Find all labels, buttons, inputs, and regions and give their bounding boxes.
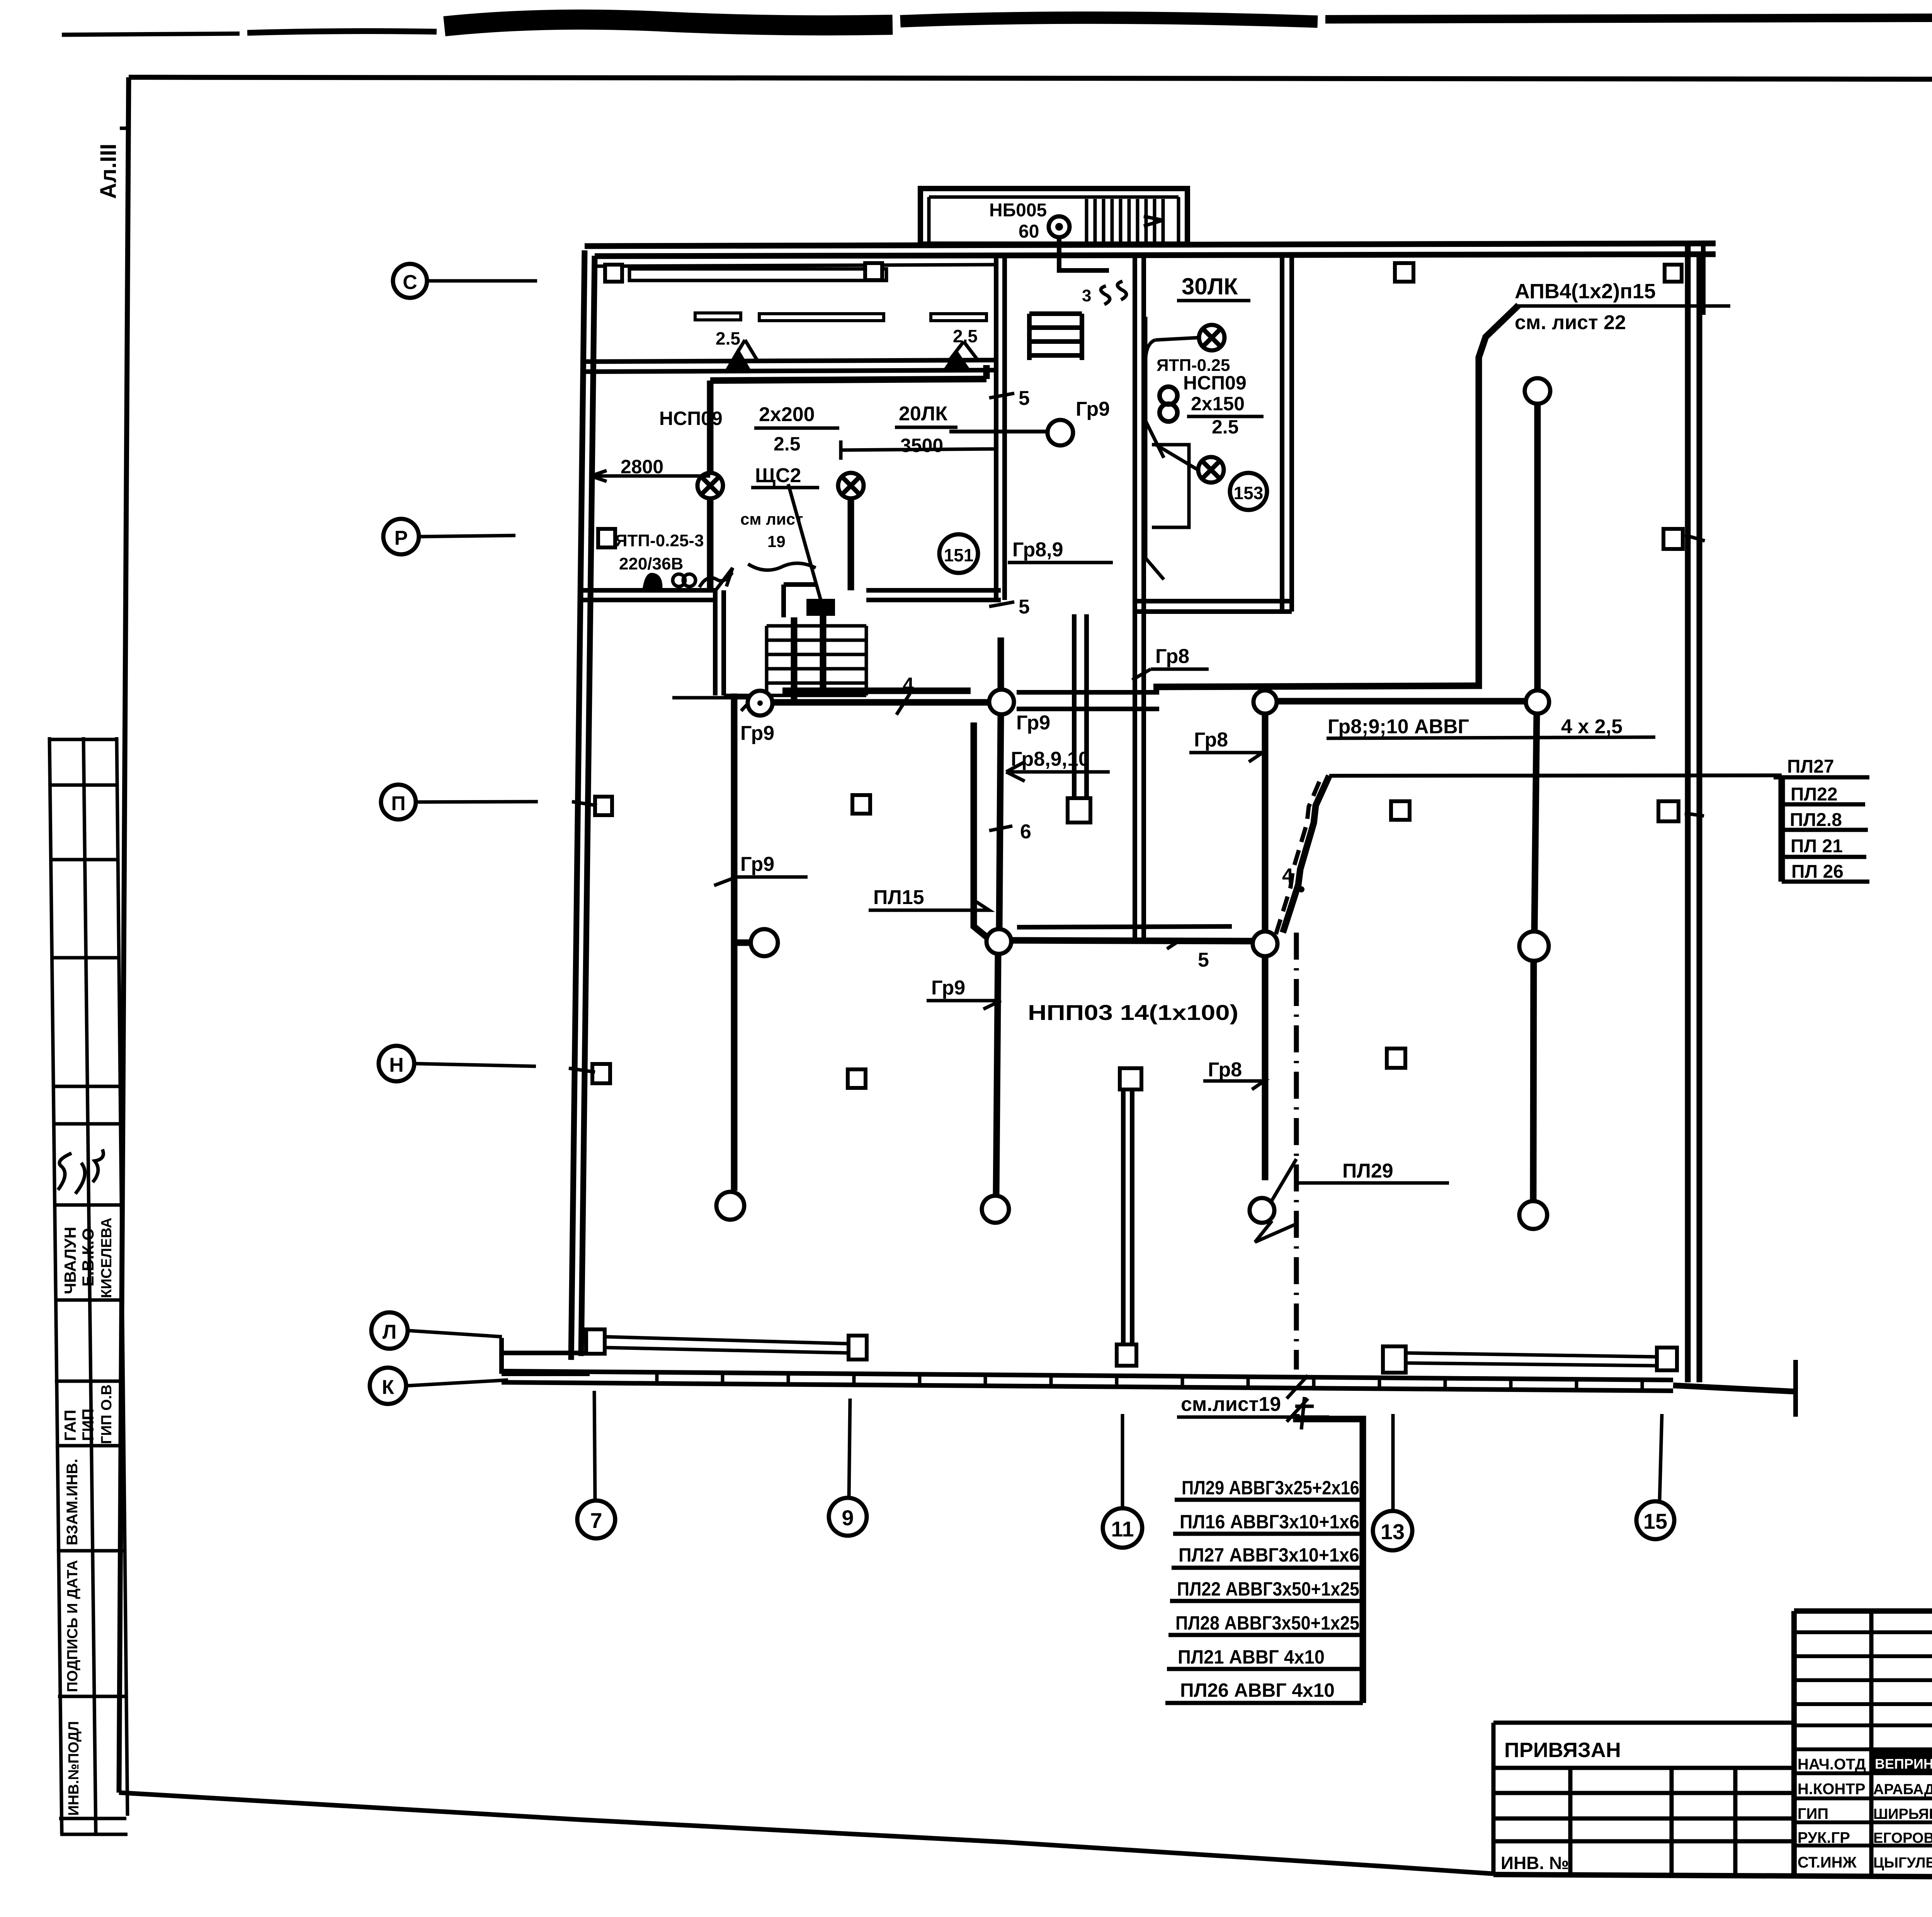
column square mid row N <box>848 1069 866 1088</box>
bottom wall left end box <box>502 1338 590 1374</box>
ventkamera mid band wall (double) <box>583 360 996 372</box>
svg-text:5: 5 <box>1198 949 1209 971</box>
svg-text:ПЛ26 АВВГ 4х10: ПЛ26 АВВГ 4х10 <box>1180 1679 1335 1701</box>
column square right wall row P2 <box>1658 801 1679 821</box>
column square top right-mid <box>1395 263 1413 282</box>
svg-text:Гр8,9,10: Гр8,9,10 <box>1011 748 1090 770</box>
bottom wall ladder bottom line <box>502 1382 1673 1391</box>
squiggle CC near protrusion <box>1101 281 1126 304</box>
lamp fixture X mid stem <box>848 498 854 590</box>
wire vertical x3274 lower <box>1262 956 1269 1180</box>
axis Pe circle <box>381 785 416 819</box>
bottom wall right end cap <box>1793 1360 1798 1417</box>
lamp row3 x1890 <box>716 1192 744 1220</box>
ventkamera right wall (double) <box>996 256 1005 600</box>
valve symbol right <box>943 350 971 370</box>
underline APV4 <box>1515 304 1730 308</box>
axis 7 circle <box>577 1501 615 1538</box>
axis K circle <box>370 1368 406 1404</box>
axis P leader <box>419 535 515 537</box>
column square right-mid row N <box>1387 1049 1405 1068</box>
svg-text:см лист: см лист <box>740 510 803 528</box>
column tick left wall row P2 <box>572 802 597 806</box>
svg-text:3500: 3500 <box>900 435 943 456</box>
axis 9 circle <box>829 1498 867 1536</box>
wire riser x3968 lower <box>1533 961 1534 1201</box>
svg-text:20ЛК: 20ЛК <box>899 403 947 425</box>
strip signature scribbles <box>58 1149 104 1194</box>
svg-text:П: П <box>391 792 405 815</box>
svg-text:АРАБАДЖИ: АРАБАДЖИ <box>1873 1781 1932 1798</box>
svg-text:ПЛ27: ПЛ27 <box>1787 756 1834 777</box>
junction top x3979 <box>1526 690 1549 714</box>
svg-text:Р: Р <box>395 527 408 549</box>
central wall (double) <box>1135 256 1144 938</box>
column square right-mid row P2 <box>1391 801 1410 820</box>
lamp NB005 stem <box>1059 237 1109 270</box>
ventkamera shelf bar 3 <box>931 314 986 321</box>
svg-text:3: 3 <box>1082 286 1091 305</box>
lamp NB005 double circle <box>1049 216 1070 237</box>
lamp fixture X mid <box>838 473 864 498</box>
junction top x3274 <box>1253 690 1277 714</box>
lamp fixture X room153 top <box>1199 325 1225 350</box>
column square top mid <box>865 263 882 280</box>
svg-text:ЕГОРОВА: ЕГОРОВА <box>1873 1830 1932 1846</box>
lamp row3 x3266 <box>1250 1198 1274 1223</box>
svg-text:ВЕПРИНСКИЙ: ВЕПРИНСКИЙ <box>1875 1756 1932 1772</box>
svg-text:Гр8: Гр8 <box>1208 1059 1242 1081</box>
svg-text:СТ.ИНЖ: СТ.ИНЖ <box>1798 1854 1857 1871</box>
stamp grid horizontals <box>1794 1632 1932 1846</box>
svg-text:ЧВАЛУН: ЧВАЛУН <box>61 1227 79 1294</box>
svg-text:см.лист19: см.лист19 <box>1181 1393 1281 1416</box>
svg-text:ПЛ15: ПЛ15 <box>873 886 924 909</box>
duct B end square <box>1068 798 1090 823</box>
wire room153 drop <box>1146 317 1164 580</box>
wire Gr89-10 riser <box>974 722 986 937</box>
stair top-centre treads <box>1029 314 1082 360</box>
svg-text:ПЛ 21: ПЛ 21 <box>1791 836 1843 857</box>
svg-text:2.5: 2.5 <box>953 326 978 346</box>
wire panel drops into stair <box>794 616 823 702</box>
svg-text:9: 9 <box>842 1506 854 1530</box>
corridor wall upper (double) <box>1017 692 1159 709</box>
svg-text:НБ005: НБ005 <box>989 200 1047 221</box>
svg-text:15: 15 <box>1643 1509 1667 1533</box>
panel ShchS2 filled <box>806 599 835 616</box>
svg-text:ПРИВЯЗАН: ПРИВЯЗАН <box>1504 1739 1621 1762</box>
svg-text:Ал.III: Ал.III <box>96 144 121 199</box>
lamp row3 x3968 <box>1519 1201 1547 1229</box>
wire group feed ventkamera horizontal <box>710 365 986 381</box>
lamp row2 x1978 stub <box>734 940 751 946</box>
svg-text:2.5: 2.5 <box>1212 416 1239 438</box>
svg-text:КИСЕЛЕВА: КИСЕЛЕВА <box>99 1218 115 1298</box>
axis K leader <box>406 1380 508 1386</box>
column square left wall row P2 <box>595 797 612 815</box>
svg-text:ПЛ22 АВВГ3х50+1х25: ПЛ22 АВВГ3х50+1х25 <box>1177 1578 1359 1600</box>
axis 11 circle <box>1103 1508 1142 1548</box>
svg-text:2.5: 2.5 <box>716 328 740 348</box>
outer wall right (double) <box>1688 243 1699 1382</box>
PL29 drop jog <box>1296 1414 1363 1476</box>
vent protrusion inner line <box>929 197 1179 244</box>
svg-text:Н.КОНТР: Н.КОНТР <box>1798 1781 1866 1798</box>
ventkamera shelf bar 2 <box>759 314 884 321</box>
svg-text:2800: 2800 <box>621 456 663 478</box>
column square top right <box>1665 265 1682 282</box>
svg-text:ГАП: ГАП <box>61 1410 79 1441</box>
junction mid left <box>986 929 1011 954</box>
axis 13 circle <box>1373 1511 1412 1550</box>
title block outer <box>1493 1611 1932 1888</box>
dim line 3500 <box>841 440 998 460</box>
break marks on wall crossing <box>1287 1375 1308 1422</box>
wire lamp top right stem <box>1534 404 1541 690</box>
wire bus PL15 row <box>1011 940 1253 941</box>
wire ventkamera left drop <box>707 381 714 590</box>
svg-text:5: 5 <box>1019 596 1030 618</box>
outer wall right corner stub <box>1701 246 1706 315</box>
svg-text:Н: Н <box>389 1054 404 1076</box>
axis 9 leader <box>849 1399 850 1498</box>
svg-text:151: 151 <box>944 545 974 565</box>
svg-text:7: 7 <box>590 1508 602 1533</box>
tick on bus 4 <box>896 693 910 715</box>
svg-text:ГИП О.В: ГИП О.В <box>99 1385 115 1444</box>
svg-text:ШИРЬЯКОВ: ШИРЬЯКОВ <box>1873 1806 1932 1822</box>
svg-text:5: 5 <box>1019 387 1030 410</box>
wire bus 4 <box>772 699 989 706</box>
svg-text:Гр9: Гр9 <box>740 722 774 744</box>
column square mid row P2 <box>852 795 870 814</box>
railing right with end squares <box>1383 1346 1406 1373</box>
sheet border left <box>119 77 129 1793</box>
lamp row2 x1978 <box>751 929 778 956</box>
cable APV4 polyline <box>1153 305 1519 687</box>
lamp hook to PL29 line <box>1255 1159 1296 1242</box>
panel ShchS2 outline box <box>784 585 816 617</box>
axis 13 leader <box>1391 1414 1395 1511</box>
svg-text:Гр9: Гр9 <box>740 853 774 875</box>
column square top-left <box>605 265 622 282</box>
duct B vertical (double) <box>1074 614 1087 797</box>
svg-text:2х200: 2х200 <box>759 403 815 426</box>
duct C vertical (double) <box>1123 1089 1132 1343</box>
stair lower-left rail (double) <box>715 590 724 695</box>
vent grille arrow <box>1144 216 1163 226</box>
axis 7 leader <box>594 1391 595 1501</box>
axis 15 leader <box>1660 1414 1662 1501</box>
svg-text:Гр8,9: Гр8,9 <box>1012 539 1063 561</box>
axis C leader <box>427 279 537 283</box>
column square right wall row R <box>1663 529 1683 549</box>
svg-text:Гр8;9;10 АВВГ: Гр8;9;10 АВВГ <box>1328 715 1469 738</box>
svg-text:4: 4 <box>903 674 914 696</box>
svg-text:6: 6 <box>1020 821 1031 843</box>
axis L circle <box>371 1312 408 1349</box>
svg-text:ПЛ16 АВВГ3х10+1х6: ПЛ16 АВВГ3х10+1х6 <box>1180 1511 1359 1533</box>
duct C top square <box>1120 1068 1141 1089</box>
svg-text:2х150: 2х150 <box>1191 393 1245 415</box>
border tick near Al.III <box>120 127 130 130</box>
svg-text:11: 11 <box>1111 1517 1134 1541</box>
svg-text:220/36В: 220/36В <box>619 554 683 573</box>
axis N circle <box>379 1046 414 1081</box>
room 30LK right wall (double) <box>1282 256 1292 612</box>
dim line 2800 <box>591 471 710 481</box>
wire riser x3975 mid <box>1534 714 1537 931</box>
ventkamera bottom wall left segment (double) <box>578 590 715 600</box>
strip dividers <box>49 739 128 1834</box>
squiggle arrow near YaTP <box>699 568 733 590</box>
svg-text:Л: Л <box>383 1321 397 1343</box>
lamp top right <box>1525 378 1550 404</box>
axis C circle <box>393 264 427 298</box>
lamp fixture X room153 lower <box>1198 457 1224 483</box>
underline Gr8910 AVVG <box>1327 737 1655 738</box>
junction mid right <box>1519 931 1549 961</box>
railing left with end squares <box>586 1329 605 1354</box>
jagged diagonal solid <box>1283 776 1329 933</box>
svg-text:ПЛ22: ПЛ22 <box>1791 784 1838 805</box>
column square left wall row N <box>592 1064 610 1083</box>
svg-text:НСП09: НСП09 <box>1183 372 1247 394</box>
svg-text:ИНВ.№ПОДЛ: ИНВ.№ПОДЛ <box>66 1721 82 1816</box>
outer wall left (double) <box>571 250 595 1360</box>
svg-text:Гр9: Гр9 <box>1076 398 1110 420</box>
svg-text:19: 19 <box>767 532 786 551</box>
ventkamera bottom wall right segment (double) <box>866 590 1001 600</box>
wire room153 hook <box>1145 338 1198 470</box>
svg-text:Гр8: Гр8 <box>1155 645 1189 668</box>
jagged diagonal dashed <box>1276 777 1321 934</box>
bottom wall ladder top line <box>502 1371 1673 1380</box>
svg-text:4 х 2,5: 4 х 2,5 <box>1561 715 1622 738</box>
svg-text:ВЗАМ.ИНВ.: ВЗАМ.ИНВ. <box>64 1459 81 1545</box>
corridor wall lower thin line <box>1017 926 1232 927</box>
vent protrusion box <box>920 189 1187 244</box>
svg-text:Гр8: Гр8 <box>1194 729 1228 751</box>
PL callout stack left border <box>1779 775 1785 882</box>
svg-text:Гр9: Гр9 <box>1016 712 1050 734</box>
meter circles <box>673 574 685 586</box>
dash-dot riser PL29 <box>1294 933 1299 1370</box>
svg-text:АПВ4(1х2)п15: АПВ4(1х2)п15 <box>1515 280 1656 303</box>
room tag 151 <box>939 534 978 573</box>
break mark 7 <box>1295 1397 1314 1429</box>
outer wall top (double) <box>585 243 1716 256</box>
svg-text:2.5: 2.5 <box>774 433 801 455</box>
sheet border bottom <box>119 1793 1493 1874</box>
svg-text:Е.В.К.О: Е.В.К.О <box>79 1228 97 1286</box>
axis N leader <box>414 1064 536 1066</box>
svg-text:РУК.ГР: РУК.ГР <box>1798 1829 1850 1846</box>
svg-text:4: 4 <box>1282 865 1293 887</box>
axis L leader <box>408 1331 502 1337</box>
svg-text:30ЛК: 30ЛК <box>1182 274 1238 299</box>
vent grille hatch <box>1087 199 1163 243</box>
bottom wall ladder rungs <box>657 1372 1642 1390</box>
wire Gr10 riser <box>731 693 738 1191</box>
thin line to PL stack <box>1329 775 1782 776</box>
label Gr10 underline arrow <box>672 698 753 711</box>
scan band segment 2 <box>247 31 437 33</box>
brace under 19 <box>748 563 816 570</box>
svg-text:НПП03 14(1х100): НПП03 14(1х100) <box>1028 1000 1238 1025</box>
bottom wall right extension <box>1673 1385 1796 1392</box>
room tag 153 <box>1230 473 1267 510</box>
svg-text:С: С <box>403 271 417 294</box>
svg-text:ЦЫГУЛЕВА: ЦЫГУЛЕВА <box>1873 1855 1932 1871</box>
svg-text:ПЛ 26: ПЛ 26 <box>1791 862 1844 882</box>
scan band heavy segment 3 <box>444 20 893 26</box>
svg-text:НСП09: НСП09 <box>659 408 723 429</box>
transformer YaTP double circle <box>1160 387 1177 404</box>
junction Gr8 mid <box>1253 931 1277 956</box>
svg-text:ИНВ. №: ИНВ. № <box>1501 1853 1569 1873</box>
axis 15 circle <box>1636 1501 1674 1539</box>
wire riser x2585 down <box>999 714 1001 929</box>
left privyazan box <box>1493 1723 1794 1875</box>
wire bus top right segment <box>1277 698 1526 705</box>
svg-text:ПЛ21 АВВГ 4х10: ПЛ21 АВВГ 4х10 <box>1178 1646 1325 1668</box>
svg-text:ПОДПИСЬ И ДАТА: ПОДПИСЬ И ДАТА <box>65 1560 81 1692</box>
scan band top edge <box>62 34 240 35</box>
ventkamera shelf bar 1 <box>695 313 741 320</box>
wire vertical x3274 upper <box>1262 712 1269 931</box>
svg-text:НАЧ.ОТД: НАЧ.ОТД <box>1798 1756 1866 1773</box>
scan band segment 5 <box>1325 18 1932 19</box>
svg-text:Гр9: Гр9 <box>931 977 965 999</box>
scan band segment 4 <box>900 18 1318 22</box>
ventkamera inner top line <box>595 265 996 266</box>
wire bus 4 upper line <box>782 688 971 694</box>
column tick left wall row N <box>569 1068 595 1072</box>
left stamp strip outline <box>49 737 128 1834</box>
transformer YaTP square <box>598 529 615 547</box>
svg-text:ПЛ28 АВВГ3х50+1х25: ПЛ28 АВВГ3х50+1х25 <box>1175 1612 1359 1634</box>
PL29 list right border <box>1360 1476 1366 1703</box>
junction Gr9 right <box>989 690 1014 714</box>
panel ShchS2 leader <box>788 484 821 600</box>
wire riser x2590 up <box>998 637 1004 690</box>
stair lower-left treads <box>724 626 866 695</box>
svg-text:13: 13 <box>1381 1519 1405 1544</box>
svg-text:ПЛ2.8: ПЛ2.8 <box>1790 810 1842 830</box>
column tick right wall row P2 <box>1685 813 1704 816</box>
lamp fixture X left <box>697 473 723 498</box>
sheet border top <box>129 77 1932 80</box>
lamp row3 x2576 <box>982 1196 1009 1223</box>
axis 11 leader <box>1121 1414 1124 1508</box>
ventkamera ceiling beam <box>629 269 886 280</box>
svg-text:ЯТП-0.25-3: ЯТП-0.25-3 <box>615 531 704 550</box>
duct C end square <box>1117 1344 1136 1366</box>
svg-text:ПЛ29 АВВГ3х25+2х16: ПЛ29 АВВГ3х25+2х16 <box>1182 1477 1359 1499</box>
ground blob <box>642 573 663 591</box>
junction Gr9 left <box>748 691 772 715</box>
svg-text:60: 60 <box>1019 221 1039 242</box>
closet in room 153 <box>1152 445 1189 527</box>
wire riser to lamp row3 <box>996 954 998 1196</box>
stamp grid verticals <box>1871 1611 1932 1877</box>
svg-text:ГИП: ГИП <box>1798 1805 1828 1822</box>
wire Gr9 room leader <box>949 430 1048 433</box>
svg-text:ГИП: ГИП <box>79 1409 97 1441</box>
column tick right wall row R <box>1685 535 1705 541</box>
svg-text:ПЛ27 АВВГ3х10+1х6: ПЛ27 АВВГ3х10+1х6 <box>1179 1544 1359 1566</box>
svg-text:ПЛ29: ПЛ29 <box>1342 1160 1393 1182</box>
axis P circle <box>383 519 419 554</box>
room 30LK bottom wall (double) <box>1135 601 1292 612</box>
valve symbol left <box>724 348 752 372</box>
svg-text:см. лист 22: см. лист 22 <box>1515 311 1626 334</box>
svg-text:К: К <box>382 1376 394 1399</box>
svg-text:ЩС2: ЩС2 <box>755 464 801 487</box>
lamp Gr9 upper <box>1048 420 1073 445</box>
svg-text:153: 153 <box>1234 483 1264 503</box>
axis Pe leader <box>416 802 538 802</box>
